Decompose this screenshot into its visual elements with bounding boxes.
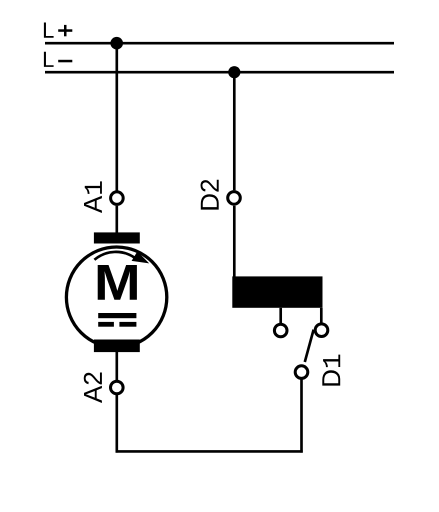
wire: terminal D2 down to brake coil	[233, 206, 236, 278]
wire: motor bottom brush to terminal A2	[115, 352, 118, 380]
terminal A1 circle	[111, 192, 124, 205]
net label L+	[44, 23, 54, 38]
switch D1 fixed contact circle	[315, 324, 328, 337]
motor M1: rotation arrow head	[132, 251, 150, 263]
motor M1: top brush block	[94, 232, 140, 243]
junction dot on L+	[110, 37, 123, 50]
brake coil (solid black box)	[232, 276, 322, 307]
wire: L+ junction down to terminal A1	[115, 43, 118, 190]
wire: switch D1 down to bottom return wire	[300, 379, 303, 453]
switch D1 blade	[305, 330, 314, 362]
wire: bottom return wire	[116, 450, 303, 453]
terminal A2 circle	[111, 381, 124, 394]
motor M1: stator circle	[66, 247, 166, 347]
motor M1: rotation arrow arc	[94, 252, 135, 260]
motor M1: bottom brush block	[94, 340, 140, 353]
motor M1: DC symbol dashed bar left segment	[98, 322, 114, 327]
label A1 (rotated)	[84, 181, 102, 213]
net label L-	[44, 52, 54, 67]
motor M1: DC symbol solid bar	[98, 313, 136, 318]
terminal D2 circle	[228, 192, 241, 205]
wire: terminal A2 down to bottom return wire	[115, 395, 118, 453]
switch D1 moving contact circle	[295, 366, 308, 379]
label A2 (rotated)	[84, 373, 102, 403]
wire: L- supply rail	[45, 71, 394, 74]
wire: coil bottom left stub	[279, 308, 282, 324]
wire: terminal A1 down to motor top brush	[115, 206, 118, 234]
wire: L+ supply rail	[45, 42, 394, 45]
brake terminal circle (left, unconnected)	[274, 324, 287, 337]
wire: L- junction down to terminal D2	[233, 72, 236, 190]
label D2 (rotated)	[201, 180, 219, 210]
wire: coil bottom right stub	[320, 308, 323, 324]
motor M1: DC symbol dashed bar right segment	[119, 322, 136, 327]
junction dot on L-	[228, 66, 240, 78]
motor M1: letter M	[98, 265, 137, 300]
label D1 (rotated)	[322, 355, 340, 386]
